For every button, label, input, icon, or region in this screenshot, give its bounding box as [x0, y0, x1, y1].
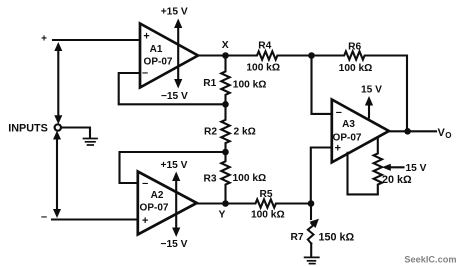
wire A3 noninverting input from R5/R7 junction	[311, 148, 332, 204]
resistor R2 2k (vertical)	[204, 104, 256, 152]
svg-text:2 kΩ: 2 kΩ	[234, 127, 256, 138]
wire top input (+) to A1 noninverting input	[53, 39, 140, 41]
wire A2 feedback (inverting input to R2-R3 junction)	[120, 152, 226, 183]
A1 supply arrows +15V / -15V	[161, 7, 188, 103]
svg-text:−15 V: −15 V	[161, 239, 188, 250]
wire A3 output	[389, 130, 436, 132]
svg-text:+: +	[41, 34, 47, 45]
svg-text:15 V: 15 V	[406, 163, 427, 174]
svg-text:OP-07: OP-07	[140, 203, 169, 214]
A2 supply arrows +15V / -15V	[161, 160, 188, 250]
svg-text:R3: R3	[203, 173, 216, 184]
svg-text:A1: A1	[150, 44, 163, 55]
ground (R7)	[305, 244, 319, 264]
node - terminal label	[41, 211, 47, 223]
svg-text:100 kΩ: 100 kΩ	[246, 62, 280, 73]
node INPUTS terminal (open circle)	[55, 124, 61, 130]
svg-text:20 kΩ: 20 kΩ	[382, 174, 412, 186]
wire input double arrow upper (between + rail and INPUTS terminal)	[54, 42, 62, 124]
svg-text:X: X	[222, 40, 229, 51]
op-amp A1 OP-07	[140, 24, 198, 88]
A3 supply arrow 15V	[361, 84, 382, 117]
resistor R1 100k (vertical)	[203, 56, 266, 104]
node output junction	[404, 128, 411, 135]
svg-text:–: –	[336, 107, 342, 119]
svg-text:+: +	[142, 215, 148, 227]
svg-text:A3: A3	[342, 119, 355, 130]
node + terminal label	[41, 34, 47, 45]
svg-text:−15 V: −15 V	[161, 91, 188, 102]
svg-text:INPUTS: INPUTS	[8, 122, 48, 134]
wire A2 output to node Y	[197, 202, 226, 204]
svg-text:–: –	[142, 67, 148, 79]
wire INPUTS terminal to ground	[61, 128, 90, 138]
svg-text:R5: R5	[259, 189, 272, 200]
node R5-R7 junction	[308, 200, 315, 207]
svg-text:+: +	[143, 31, 149, 43]
op-amp A2 OP-07	[138, 172, 197, 235]
node R1-R2 junction	[222, 101, 229, 108]
svg-text:15 V: 15 V	[361, 84, 382, 95]
svg-text:A2: A2	[151, 190, 164, 201]
svg-text:OP-07: OP-07	[144, 57, 173, 68]
node R2-R3 junction	[222, 149, 229, 156]
svg-text:O: O	[445, 131, 451, 140]
node VO label	[438, 127, 452, 140]
svg-text:150 kΩ: 150 kΩ	[319, 231, 355, 243]
svg-text:–: –	[41, 211, 47, 223]
svg-text:OP-07: OP-07	[333, 132, 362, 143]
svg-text:100 kΩ: 100 kΩ	[233, 173, 267, 184]
resistor R4 100k (horizontal, X to A3 inverting node)	[226, 41, 312, 74]
wire A3 inverting input from R4/R6 junction	[312, 56, 332, 114]
20k wiper arrow to -15V	[382, 163, 427, 174]
svg-text:100 kΩ: 100 kΩ	[251, 210, 285, 221]
svg-text:100 kΩ: 100 kΩ	[233, 80, 267, 91]
svg-text:R1: R1	[203, 78, 216, 89]
rheostat R7 150k (adjustable, to ground)	[290, 204, 354, 244]
svg-text:V: V	[438, 127, 446, 139]
node INPUTS label	[8, 122, 48, 134]
ground (input common)	[84, 139, 98, 146]
node R4-R6-A3 inverting junction	[308, 52, 315, 59]
resistor R6 100k (horizontal feedback)	[312, 42, 408, 74]
wire bottom input (-) to A2 noninverting input	[52, 218, 138, 220]
svg-text:R4: R4	[258, 41, 271, 52]
wire A1 feedback (inverting input to R1-R2 junction)	[119, 73, 226, 104]
resistor R3 100k (vertical)	[203, 152, 266, 204]
svg-text:+15 V: +15 V	[161, 7, 188, 18]
svg-text:Y: Y	[219, 210, 226, 221]
potentiometer 20k (offset trim on A3)	[348, 139, 413, 194]
op-amp A3 OP-07	[332, 100, 389, 163]
node X	[222, 40, 229, 59]
svg-text:R7: R7	[290, 232, 303, 243]
svg-text:R6: R6	[348, 42, 361, 53]
node Y	[219, 200, 229, 220]
svg-text:+: +	[335, 143, 341, 155]
wire A1 output to node X	[198, 54, 226, 56]
svg-text:R2: R2	[204, 127, 217, 138]
wire input double arrow lower (between INPUTS terminal and - rail)	[53, 131, 61, 218]
svg-text:100 kΩ: 100 kΩ	[339, 63, 373, 74]
svg-text:SeekIC.com: SeekIC.com	[404, 254, 456, 264]
svg-text:–: –	[142, 178, 148, 190]
svg-text:+15 V: +15 V	[161, 160, 188, 171]
resistor R5 100k (horizontal, Y to A3 noninverting node)	[226, 189, 312, 221]
wire R6 to output node	[406, 56, 408, 132]
